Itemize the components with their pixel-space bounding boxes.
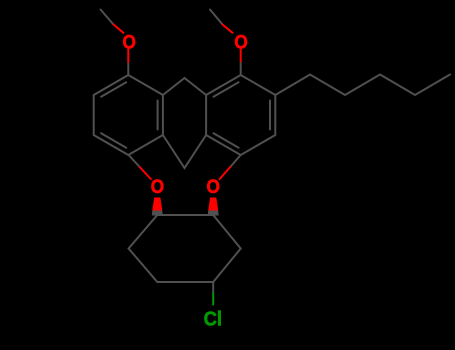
left aryl to inner O bond gray half [129,155,140,167]
left ring double bond E [157,101,159,130]
right methyl bond red half [223,25,233,33]
left methyl bond red half [114,25,124,33]
bottom cyclohexane ring [129,215,241,282]
Cl bond green half [212,294,214,305]
left aryl to inner O bond red half [140,167,151,179]
bridge CH2 bottom (C10) [163,135,206,168]
right O-ring vertical bond gray half [240,62,242,76]
Cl bond gray half [212,282,214,294]
svg-text:Cl: Cl [204,308,222,331]
right O-ring vertical bond red half [240,48,242,61]
left methyl bond gray half [101,10,114,25]
right ring double bond E [269,101,271,130]
svg-text:O: O [234,30,247,52]
bridge CH2 top (C9) [163,78,206,95]
right stereo wedge gray tip [208,211,219,216]
left ring double bond NW [101,82,126,97]
left O-ring vertical bond gray half [127,62,129,75]
hexenyl chain [275,75,450,96]
right ring double bond NW [214,82,239,97]
right benzene ring outline [206,75,275,155]
svg-text:O: O [151,175,164,197]
right aryl to inner O bond red half [220,167,231,179]
svg-text:O: O [123,30,136,52]
left stereo wedge red part [152,198,162,211]
right stereo wedge red part [208,198,218,211]
left benzene ring outline [94,75,163,155]
right methyl bond gray half [210,10,223,25]
left stereo wedge gray tip [152,211,163,216]
svg-text:O: O [207,175,220,197]
left O-ring vertical bond red half [127,49,129,62]
right aryl to inner O bond gray half [230,155,241,167]
left ring double bond SW [101,133,126,148]
right ring double bond SW [214,133,239,148]
